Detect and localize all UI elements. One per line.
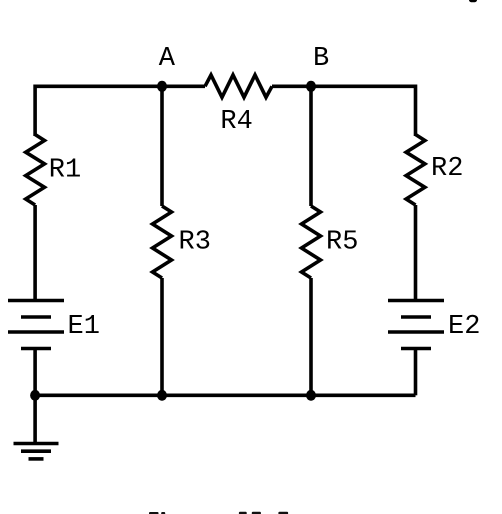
node A junction dot (157, 81, 167, 92)
ground (14, 444, 59, 459)
wire node A down to R3 (160, 86, 164, 206)
cropped caption fragment: top of "1" in 10.3 (239, 512, 247, 514)
resistor R4 (205, 75, 272, 97)
wire R3 to bottom rail (160, 278, 164, 395)
wire E1 to bottom rail (33, 349, 37, 396)
junction dot bottom-left (ground node) (30, 390, 40, 401)
svg-text:R3: R3 (179, 227, 211, 257)
resistor R2 (406, 135, 425, 206)
wire R5 to bottom rail (309, 278, 313, 395)
resistor R3 (153, 206, 172, 278)
svg-text:R1: R1 (49, 155, 81, 185)
junction dot bottom of R5 (306, 390, 316, 401)
cropped caption fragment: top of "0" in 10.3 (252, 512, 261, 514)
wire from R4 to node B and top-right corner (272, 86, 416, 136)
resistor R1 (26, 135, 45, 206)
wire E2 to bottom rail (414, 349, 418, 396)
cropped caption fragment: top of "3" in 10.3 (278, 512, 288, 514)
wire node B down to R5 (309, 86, 313, 206)
resistor R5 (302, 206, 321, 278)
svg-text:A: A (159, 44, 176, 74)
bottom rail wire (35, 393, 415, 397)
svg-text:B: B (313, 44, 329, 74)
svg-text:E1: E1 (68, 312, 100, 342)
cropped glyph fragment top-right (469, 0, 477, 2)
battery E2 (388, 301, 444, 349)
node B junction dot (306, 81, 316, 92)
cropped caption fragment: top of "F" in Figure (149, 512, 159, 514)
svg-text:R2: R2 (431, 154, 463, 184)
svg-text:E2: E2 (448, 312, 480, 342)
wire to ground (33, 395, 37, 443)
battery E1 (8, 301, 64, 349)
junction dot bottom of R3 (157, 390, 167, 401)
cropped caption fragment: dot of "i" in Figure (161, 512, 165, 514)
wire R2 to battery E2 (414, 205, 418, 300)
wire top-left from left branch corner to node A and on to R4 (35, 86, 205, 136)
svg-text:R4: R4 (220, 107, 252, 137)
wire R1 to battery E1 (33, 205, 37, 300)
svg-text:R5: R5 (326, 227, 358, 257)
